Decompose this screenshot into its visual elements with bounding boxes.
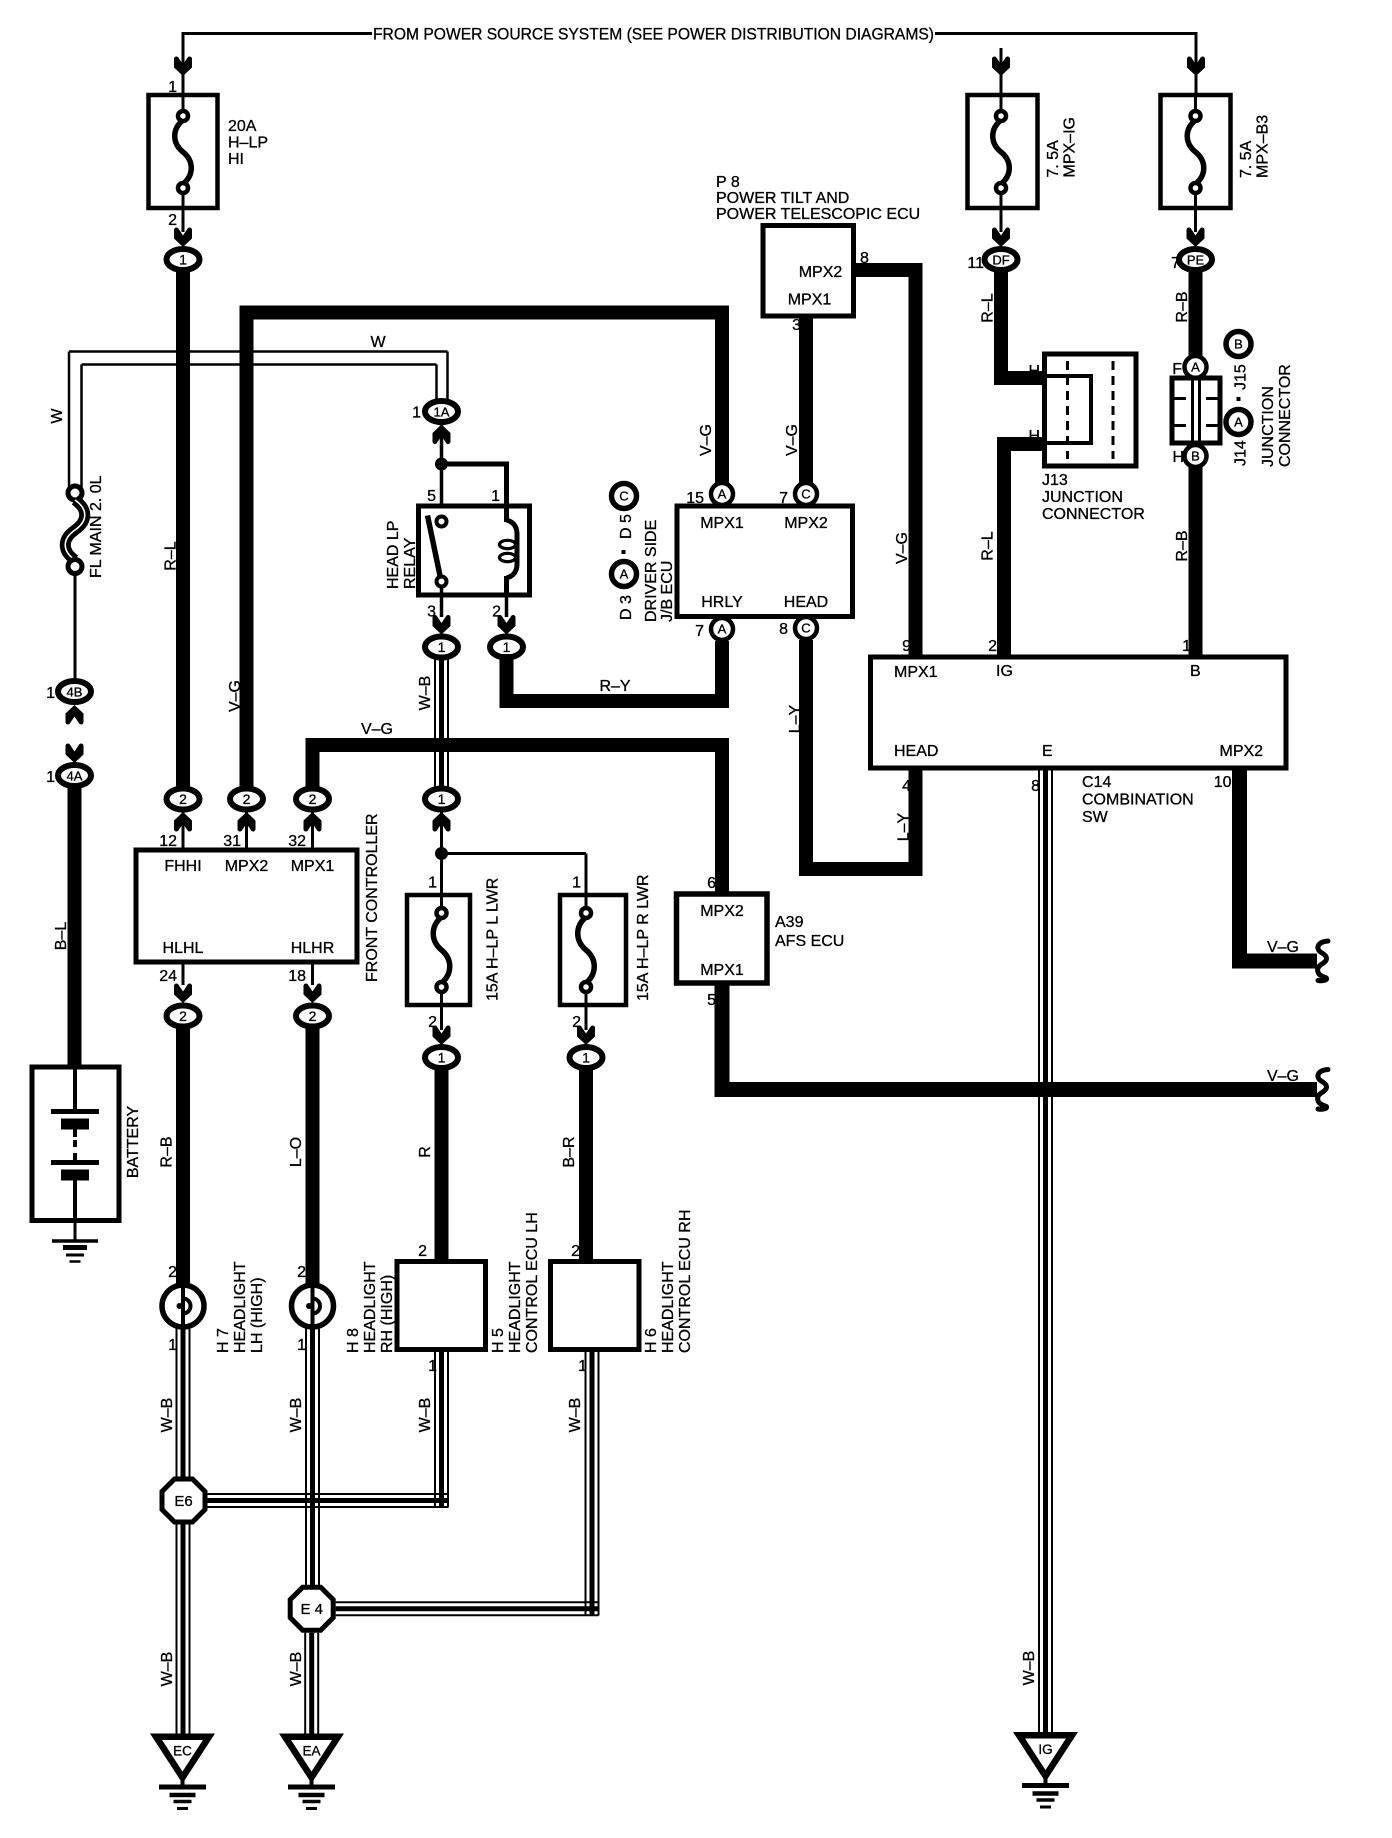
svg-text:JUNCTION: JUNCTION	[1042, 489, 1123, 506]
svg-text:H 6: H 6	[643, 1328, 660, 1353]
arrow into it	[433, 812, 451, 832]
svg-text:FRONT CONTROLLER: FRONT CONTROLLER	[364, 813, 381, 982]
oval 2 pin12	[167, 789, 200, 810]
svg-text:R–L: R–L	[980, 531, 997, 560]
oval 2 pin31	[230, 789, 263, 810]
svg-text:MPX1: MPX1	[700, 962, 744, 979]
W-B from H6 pin1 down	[585, 1350, 587, 1616]
wire to 15A H-LP L LWR fuse with branch	[440, 812, 443, 895]
svg-text:J/B ECU: J/B ECU	[659, 561, 676, 622]
svg-text:DRIVER SIDE: DRIVER SIDE	[643, 520, 660, 622]
svg-text:C: C	[619, 489, 628, 504]
oval 2 pin24	[167, 1006, 200, 1027]
wire B-R to headlight control ECU RH	[579, 1068, 593, 1262]
W-B from H7 to E6	[176, 1325, 178, 1477]
wire: top feed line, right segment	[935, 32, 1198, 35]
wire: top feed line from power source, left segment	[183, 32, 372, 35]
svg-text:2: 2	[168, 1264, 177, 1281]
wire B-L battery feed	[68, 787, 82, 1067]
svg-text:CONNECTOR: CONNECTOR	[1277, 364, 1294, 467]
svg-text:15A H–LP R LWR: 15A H–LP R LWR	[635, 874, 652, 1001]
svg-text:A: A	[718, 487, 727, 502]
headlight H7 bulb	[162, 1285, 204, 1327]
fuse element MPX-B3	[1194, 95, 1197, 112]
svg-text:2: 2	[179, 791, 187, 807]
svg-text:CONTROL ECU LH: CONTROL ECU LH	[524, 1212, 541, 1353]
svg-text:HI: HI	[228, 151, 244, 168]
svg-text:MPX1: MPX1	[894, 664, 938, 681]
svg-text:HLHR: HLHR	[291, 940, 335, 957]
svg-text:P 8: P 8	[716, 174, 740, 191]
svg-text:4B: 4B	[67, 685, 83, 700]
svg-text:COMBINATION: COMBINATION	[1082, 792, 1194, 809]
svg-text:A: A	[620, 567, 629, 582]
wire V-G P8 MPX2 pin8 to comb SW MPX1 pin9	[854, 270, 916, 658]
oval 1 below R fuse	[570, 1047, 603, 1068]
svg-text:32: 32	[288, 833, 306, 850]
svg-text:R–L: R–L	[163, 541, 180, 570]
svg-text:A: A	[718, 622, 727, 637]
svg-text:F: F	[1172, 361, 1182, 378]
splice E6	[162, 1479, 205, 1522]
svg-text:H 8: H 8	[345, 1328, 362, 1353]
battery internal symbol	[73, 1067, 77, 1109]
svg-text:7. 5A: 7. 5A	[1045, 140, 1062, 178]
svg-text:HLHL: HLHL	[163, 940, 204, 957]
svg-text:5: 5	[427, 488, 436, 505]
svg-text:W–B: W–B	[159, 1398, 176, 1433]
svg-text:24: 24	[159, 968, 177, 985]
svg-text:MPX2: MPX2	[700, 903, 744, 920]
fuse 7.5A MPX-IG box	[968, 95, 1038, 208]
svg-text:2: 2	[988, 638, 997, 655]
svg-text:2: 2	[243, 791, 251, 807]
svg-text:E 4: E 4	[300, 1601, 323, 1618]
arrow into oval 1	[174, 228, 192, 248]
wire jumper to relay pin 1	[442, 464, 507, 506]
wire R-L to J13	[1001, 271, 1045, 378]
svg-text:MPX2: MPX2	[225, 858, 269, 875]
wire R-B J14 to comb SW B pin	[1189, 467, 1203, 658]
svg-text:W–B: W–B	[567, 1398, 584, 1433]
svg-text:R–B: R–B	[159, 1136, 176, 1167]
svg-text:CONTROL ECU RH: CONTROL ECU RH	[677, 1210, 694, 1353]
ground EC	[156, 1737, 209, 1778]
svg-text:12: 12	[159, 833, 177, 850]
wire FL MAIN to connector 4B	[74, 573, 77, 681]
fusible link FL MAIN 2.0L	[68, 486, 82, 500]
svg-text:1: 1	[491, 488, 500, 505]
svg-text:MPX1: MPX1	[788, 292, 832, 309]
W-B from H5 pin1 down	[434, 1350, 436, 1508]
headlight control ECU LH box H5	[397, 1262, 486, 1350]
svg-text:6: 6	[707, 875, 716, 892]
svg-text:1A: 1A	[434, 405, 450, 420]
svg-text:W–B: W–B	[417, 676, 434, 711]
svg-text:1: 1	[438, 1050, 446, 1066]
svg-text:1: 1	[438, 791, 446, 807]
wire R-Y relay to J/B HRLY	[507, 641, 723, 701]
lead to DF oval	[1000, 208, 1003, 232]
relay coil	[504, 506, 509, 522]
wire fuse to connector oval 1	[182, 208, 185, 232]
svg-text:RELAY: RELAY	[402, 537, 419, 589]
svg-text:RH (HIGH): RH (HIGH)	[379, 1275, 396, 1353]
svg-text:2: 2	[168, 212, 177, 229]
svg-text:CONNECTOR: CONNECTOR	[1042, 506, 1145, 523]
svg-text:B–R: B–R	[561, 1136, 578, 1167]
svg-text:LH (HIGH): LH (HIGH)	[249, 1277, 266, 1353]
fuse 20A H-LP HI element	[182, 95, 185, 112]
svg-text:EC: EC	[173, 1744, 192, 1759]
svg-text:H: H	[1172, 449, 1184, 466]
relay switch contact	[437, 517, 447, 527]
fuse element L	[440, 895, 443, 909]
svg-text:J14: J14	[1233, 440, 1250, 466]
W-B horizontal from E6 to H5 branch	[208, 1493, 449, 1495]
wire L-Y J/B HEAD to combination SW HEAD	[806, 640, 916, 869]
circled pin A of J14/J15	[1185, 356, 1207, 378]
svg-text:JUNCTION: JUNCTION	[1260, 386, 1277, 467]
svg-text:L–O: L–O	[288, 1137, 305, 1167]
svg-text:L–Y: L–Y	[787, 704, 804, 733]
svg-text:HEAD: HEAD	[894, 743, 938, 760]
J13 inner rect	[1045, 376, 1092, 443]
head lp relay box	[419, 506, 530, 595]
svg-text:A: A	[1234, 415, 1243, 430]
combination switch box C14	[871, 657, 1287, 768]
relay pin 3 lead	[440, 595, 444, 617]
svg-text:IG: IG	[996, 663, 1013, 680]
svg-text:2: 2	[297, 1264, 306, 1281]
relay pin 2 lead	[505, 595, 509, 617]
svg-text:B–L: B–L	[53, 922, 70, 951]
svg-text:8: 8	[779, 621, 788, 638]
svg-text:7: 7	[695, 623, 704, 640]
svg-text:HEADLIGHT: HEADLIGHT	[660, 1261, 677, 1353]
svg-text:1: 1	[503, 639, 511, 655]
junction connector J14/J15 box	[1172, 378, 1220, 443]
wire L-O to headlight RH	[306, 1027, 320, 1286]
J13 dashed pins	[1066, 361, 1069, 459]
svg-text:W: W	[49, 408, 66, 424]
label J15 (B)	[1226, 332, 1251, 357]
svg-text:C14: C14	[1082, 774, 1111, 791]
P8 power tilt and power telescopic ECU box	[763, 226, 854, 317]
svg-text:J13: J13	[1042, 472, 1068, 489]
arrow into 4A	[66, 744, 84, 764]
svg-text:1: 1	[582, 1050, 590, 1066]
fuse 7.5A MPX-IG feed arrow	[1000, 48, 1003, 95]
svg-text:HEAD LP: HEAD LP	[385, 521, 402, 589]
wire R to headlight control ECU LH	[435, 1068, 449, 1262]
svg-text:H: H	[1028, 363, 1040, 380]
junction connector J13 box	[1045, 354, 1137, 466]
wire V-G bus1: FC MPX2 pin31 up, across, down to J/B MPX1	[247, 313, 723, 789]
relay pin 2 oval 1	[490, 637, 523, 658]
W-B from comb SW E pin to IG ground	[1038, 768, 1040, 1734]
svg-text:4: 4	[902, 778, 911, 795]
svg-text:HEADLIGHT: HEADLIGHT	[232, 1261, 249, 1353]
svg-text:FROM POWER SOURCE SYSTEM (SEE: FROM POWER SOURCE SYSTEM (SEE POWER DIST…	[373, 26, 934, 44]
svg-text:MPX2: MPX2	[784, 515, 828, 532]
svg-text:2: 2	[179, 1008, 187, 1024]
svg-text:1: 1	[412, 405, 421, 422]
fuse element MPX-IG	[1000, 95, 1003, 112]
svg-text:11: 11	[967, 255, 984, 272]
svg-text:R–L: R–L	[980, 293, 997, 322]
svg-text:1: 1	[46, 769, 55, 786]
svg-text:POWER TILT AND: POWER TILT AND	[716, 190, 849, 207]
svg-text:EA: EA	[302, 1744, 320, 1759]
svg-text:H–LP: H–LP	[228, 135, 268, 152]
svg-text:J15: J15	[1233, 364, 1250, 390]
lead to oval, R fuse	[585, 1005, 588, 1030]
svg-text:2: 2	[309, 1008, 317, 1024]
svg-text:7. 5A: 7. 5A	[1238, 140, 1255, 178]
svg-text:9: 9	[902, 638, 911, 655]
svg-text:V–G: V–G	[784, 424, 801, 456]
svg-text:A: A	[1191, 360, 1200, 375]
svg-text:W–B: W–B	[417, 1398, 434, 1433]
svg-text:R: R	[417, 1146, 434, 1158]
arrow into fuse H-LP HI	[174, 57, 192, 77]
wire V-G bus2: FC MPX1 pin32 up, across, down to AFS ECU MPX2	[313, 745, 723, 895]
svg-text:MPX1: MPX1	[700, 515, 744, 532]
svg-text:1: 1	[428, 875, 437, 892]
svg-text:V–G: V–G	[361, 721, 393, 738]
arrow into oval 1A	[433, 425, 451, 445]
svg-text:R–B: R–B	[1174, 291, 1191, 322]
wire oval 1A to relay pin 5	[440, 424, 444, 506]
fuse 20A H-LP HI box	[149, 95, 218, 208]
svg-text:B: B	[1234, 337, 1243, 352]
fuse 7.5A MPX-B3 box	[1161, 95, 1231, 208]
W-B from E6 to EC ground	[176, 1525, 178, 1735]
driver side J/B ECU box	[677, 506, 853, 617]
svg-text:1: 1	[179, 252, 187, 268]
svg-text:MPX–IG: MPX–IG	[1062, 117, 1079, 177]
svg-text:POWER TELESCOPIC ECU: POWER TELESCOPIC ECU	[716, 206, 920, 223]
splice E4	[290, 1587, 333, 1630]
relay pin 3 oval 1	[425, 637, 458, 658]
connector oval 4A	[58, 765, 91, 786]
battery box	[32, 1067, 119, 1221]
svg-text:B: B	[1190, 663, 1201, 680]
svg-text:W–B: W–B	[159, 1652, 176, 1687]
svg-text:L–Y: L–Y	[896, 812, 913, 841]
J14 inner bars	[1191, 378, 1194, 443]
svg-text:B: B	[1191, 449, 1200, 464]
svg-text:2: 2	[418, 1243, 427, 1260]
svg-text:W: W	[370, 334, 386, 351]
svg-text:C: C	[801, 487, 810, 502]
svg-text:FHHI: FHHI	[164, 858, 201, 875]
svg-text:MPX2: MPX2	[1220, 743, 1264, 760]
svg-text:D 5: D 5	[618, 514, 635, 539]
lead to oval, L fuse	[440, 1005, 443, 1030]
connector oval 1	[167, 249, 200, 270]
lead to PE oval	[1194, 208, 1197, 232]
svg-text:V–G: V–G	[894, 532, 911, 564]
svg-text:1: 1	[297, 1337, 306, 1354]
wire V-G P8 MPX1 pin3 to J/B MPX2	[799, 316, 813, 484]
wire R-L: oval 1 down to front controller (thick)	[176, 271, 190, 788]
AFS ECU box A39	[677, 894, 768, 983]
svg-text:1: 1	[46, 685, 55, 702]
svg-text:20A: 20A	[228, 118, 257, 135]
ground IG	[1019, 1735, 1072, 1776]
svg-text:2: 2	[571, 1243, 580, 1260]
svg-text:AFS ECU: AFS ECU	[775, 933, 844, 950]
circled pin B of J14/J15	[1185, 445, 1207, 467]
svg-text:MPX2: MPX2	[799, 264, 843, 281]
label J14 (A)	[1226, 410, 1251, 435]
connector oval 1 above 15A fuses	[425, 789, 458, 810]
svg-text:H 5: H 5	[490, 1328, 507, 1353]
fuse 15A H-LP L LWR box	[407, 895, 470, 1005]
svg-text:4A: 4A	[67, 769, 83, 784]
headlight control ECU RH box H6	[551, 1262, 640, 1350]
svg-text:MPX1: MPX1	[291, 858, 335, 875]
ground EA	[285, 1737, 338, 1778]
svg-text:SW: SW	[1082, 809, 1109, 826]
connector oval DF	[985, 249, 1018, 270]
svg-text:V–G: V–G	[1267, 939, 1299, 956]
wire R-B to junction connector F pin	[1189, 271, 1203, 357]
connector oval PE	[1179, 249, 1212, 270]
svg-text:HRLY: HRLY	[701, 594, 743, 611]
wire V-G comb SW MPX2 pin10 with break	[1240, 768, 1318, 961]
oval 2 pin18	[296, 1006, 329, 1027]
svg-text:W–B: W–B	[288, 1652, 305, 1687]
svg-text:15A H–LP L LWR: 15A H–LP L LWR	[485, 878, 502, 1001]
svg-text:HEADLIGHT: HEADLIGHT	[507, 1261, 524, 1353]
svg-text:A39: A39	[775, 914, 804, 931]
headlight H8 bulb	[292, 1285, 334, 1327]
fuse 7.5A MPX-B3 feed from top line	[1195, 32, 1198, 95]
svg-text:18: 18	[288, 968, 306, 985]
svg-text:E6: E6	[174, 1493, 192, 1510]
W-B horizontal from E4 to H6 branch	[336, 1601, 599, 1603]
wire V-G AFS MPX1 pin5 with break	[722, 983, 1317, 1090]
wire: drop to fuse H-LP HI	[182, 32, 185, 95]
wire R-L J13 to comb SW IG	[1004, 444, 1045, 658]
svg-text:BATTERY: BATTERY	[125, 1106, 142, 1179]
svg-text:W–B: W–B	[288, 1398, 305, 1433]
wire W double-line from FL MAIN up and across to relay	[68, 352, 71, 491]
battery ground symbol	[74, 1220, 77, 1240]
oval 1 below L fuse	[425, 1047, 458, 1068]
svg-text:R–Y: R–Y	[599, 678, 630, 695]
svg-text:C: C	[801, 621, 810, 636]
svg-text:PE: PE	[1187, 253, 1205, 268]
svg-text:31: 31	[223, 833, 241, 850]
W-B from H8 down to E4	[305, 1325, 307, 1586]
svg-text:V–G: V–G	[227, 680, 244, 712]
W-B from E4 to EA ground	[304, 1633, 306, 1734]
oval 2 pin32	[296, 789, 329, 810]
svg-text:1: 1	[438, 639, 446, 655]
svg-text:HEAD: HEAD	[784, 594, 828, 611]
svg-text:1: 1	[1182, 638, 1191, 655]
wire R-B to headlight LH	[176, 1027, 190, 1286]
svg-text:R–B: R–B	[1174, 530, 1191, 561]
svg-text:FL MAIN 2. 0L: FL MAIN 2. 0L	[88, 475, 105, 578]
svg-text:IG: IG	[1038, 1742, 1052, 1757]
front controller box	[136, 850, 357, 962]
svg-text:E: E	[1042, 743, 1053, 760]
svg-text:MPX–B3: MPX–B3	[1255, 115, 1272, 178]
wire W-B relay pin3 down to fuse connector	[434, 658, 436, 789]
svg-text:V–G: V–G	[698, 424, 715, 456]
svg-text:D 3: D 3	[618, 595, 635, 620]
fuse 15A H-LP R LWR box	[560, 895, 626, 1005]
fuse element R	[585, 895, 588, 909]
svg-text:V–G: V–G	[1267, 1068, 1299, 1085]
svg-text:10: 10	[1214, 774, 1232, 791]
junction dot relay feed	[435, 458, 448, 471]
svg-text:2: 2	[309, 791, 317, 807]
svg-text:H 7: H 7	[215, 1328, 232, 1353]
svg-text:1: 1	[572, 875, 581, 892]
svg-text:W–B: W–B	[1021, 1651, 1038, 1686]
svg-text:DF: DF	[992, 253, 1009, 268]
svg-text:HEADLIGHT: HEADLIGHT	[362, 1261, 379, 1353]
